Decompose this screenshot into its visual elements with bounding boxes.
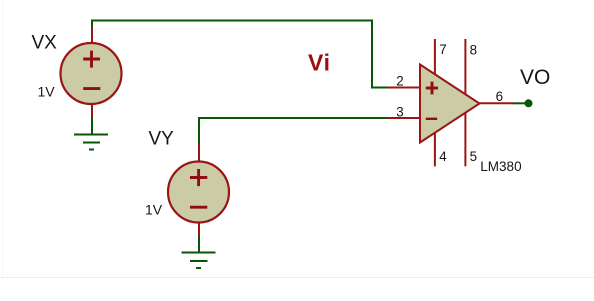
svg-text:VY: VY — [149, 129, 175, 150]
svg-text:VX: VX — [32, 32, 58, 53]
svg-text:Vi: Vi — [308, 50, 331, 76]
svg-text:2: 2 — [396, 74, 403, 89]
svg-text:6: 6 — [496, 89, 503, 104]
svg-text:1V: 1V — [145, 202, 163, 218]
svg-text:5: 5 — [470, 149, 477, 164]
svg-text:7: 7 — [439, 42, 446, 57]
svg-text:3: 3 — [396, 104, 403, 119]
svg-text:4: 4 — [439, 149, 447, 164]
svg-text:LM380: LM380 — [480, 159, 521, 174]
svg-text:1V: 1V — [38, 84, 56, 100]
svg-text:VO: VO — [520, 66, 550, 89]
svg-text:8: 8 — [470, 43, 477, 58]
